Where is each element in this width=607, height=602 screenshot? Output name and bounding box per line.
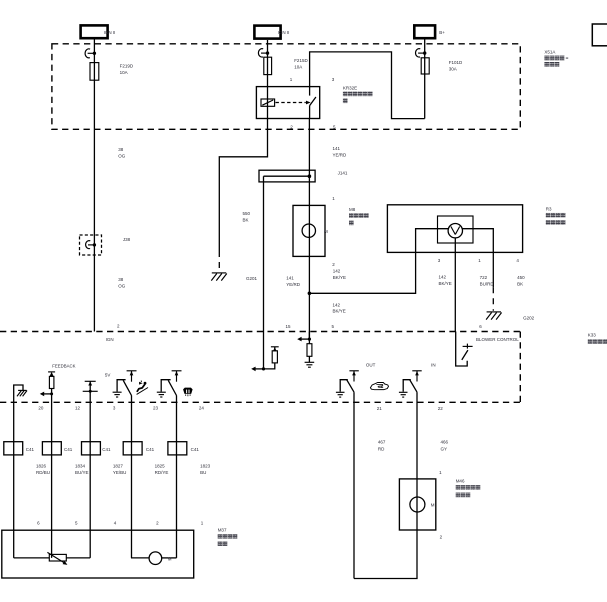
- svg-text:1: 1: [439, 470, 442, 475]
- wire 142 BK/YE M8 to junction: [308, 256, 310, 293]
- svg-text:GY: GY: [441, 446, 448, 451]
- blower motor M8: [293, 205, 328, 256]
- svg-text:1: 1: [332, 196, 335, 201]
- label 142 BK/YE: [333, 268, 346, 280]
- svg-text:KR32E: KR32E: [343, 85, 357, 90]
- K33 dashed border bottom: [0, 401, 520, 403]
- wire 722 BU/RD R3 pin 1 to K33 pin 6: [454, 252, 456, 331]
- svg-text:3: 3: [438, 258, 441, 263]
- label R3 鼓风机电机电阻器: [546, 206, 566, 224]
- M37 internal wire pin6 to potentiometer: [14, 557, 50, 559]
- svg-text:BK: BK: [243, 218, 249, 223]
- svg-text:30A: 30A: [449, 67, 457, 72]
- wire B+ feed through fuse F101D: [424, 40, 426, 119]
- mode switch 2 (K33): [157, 371, 182, 558]
- label 722 BU/RD: [480, 275, 495, 287]
- svg-text:BU/YE: BU/YE: [75, 470, 89, 475]
- label 466 GY: [441, 440, 449, 452]
- svg-text:2: 2: [156, 521, 159, 526]
- wire IGN II (left) feed through fuse F219D: [93, 40, 95, 130]
- svg-text:BU/RD: BU/RD: [480, 282, 495, 287]
- svg-text:C41: C41: [26, 447, 35, 452]
- label 1826 RD/BU: [36, 463, 50, 475]
- svg-text:1834: 1834: [75, 463, 86, 468]
- svg-text:38: 38: [118, 147, 124, 152]
- svg-text:6: 6: [37, 521, 40, 526]
- wire 550 BK relay pin 2 to ground: [219, 119, 267, 252]
- R3 internal wiring left: [416, 229, 449, 253]
- M37 internal wire potentiometer to pin4: [66, 557, 90, 559]
- recirculation IN switch (K33): [399, 371, 422, 397]
- label M46 内外循环模式电机: [456, 479, 481, 498]
- svg-text:BK: BK: [517, 282, 523, 287]
- svg-text:5: 5: [332, 324, 335, 329]
- fuse box corner box (top right): [592, 24, 607, 46]
- svg-text:21: 21: [377, 406, 383, 411]
- R3 inner element box: [438, 216, 474, 243]
- splice J141: [259, 170, 315, 182]
- svg-text:M46: M46: [456, 479, 465, 484]
- ignition switch contact at F219D: [85, 49, 96, 58]
- svg-text:23: 23: [153, 406, 159, 411]
- ground G201: [211, 273, 227, 281]
- motor (M37): [149, 552, 172, 565]
- label 142 BK/YE (lower): [333, 302, 346, 313]
- R3 internal wiring bottom: [454, 238, 456, 253]
- svg-text:F215D: F215D: [294, 58, 308, 63]
- M37 internal wire pin2 to motor: [131, 557, 149, 559]
- label 38 OG (lower): [118, 277, 126, 289]
- label KR32E 鼓风机电机继电器: [343, 85, 373, 103]
- svg-text:IN: IN: [431, 363, 436, 368]
- svg-text:C41: C41: [191, 447, 200, 452]
- ignition switch contact at F215D: [258, 49, 269, 57]
- svg-text:IGN: IGN: [106, 337, 114, 342]
- fuse F219D: [90, 63, 99, 81]
- svg-text:C41: C41: [102, 447, 111, 452]
- svg-text:J38: J38: [123, 237, 131, 242]
- svg-text:F219D: F219D: [120, 64, 134, 69]
- svg-text:R3: R3: [546, 206, 552, 211]
- svg-text:141: 141: [286, 276, 294, 281]
- label 550 BK: [243, 211, 251, 223]
- wire 466 GY K33 pin 22 to M46 pin 1: [416, 392, 418, 479]
- svg-text:15: 15: [286, 324, 292, 329]
- connector box IGN II (middle): [254, 26, 289, 39]
- svg-text:10A: 10A: [294, 65, 302, 70]
- blower resistor R3 box: [387, 205, 522, 253]
- svg-text:BK/YE: BK/YE: [333, 309, 346, 314]
- svg-text:G202: G202: [523, 315, 535, 320]
- svg-text:BK/YE: BK/YE: [333, 275, 346, 280]
- svg-text:6: 6: [479, 324, 482, 329]
- HVAC control module K33 dashed border top: [0, 331, 520, 333]
- 5V reference output (K33): [83, 381, 98, 558]
- svg-text:RD/BU: RD/BU: [36, 470, 50, 475]
- ground G202: [486, 312, 502, 320]
- svg-text:OG: OG: [118, 153, 126, 158]
- fuse F101D: [421, 58, 429, 74]
- relay switch pin 3 stub: [309, 87, 311, 96]
- svg-text:2: 2: [117, 324, 120, 329]
- svg-text:M37: M37: [218, 528, 227, 533]
- svg-text:142: 142: [333, 302, 341, 307]
- svg-text:IGN II: IGN II: [278, 30, 290, 35]
- label F101D 30A: [449, 60, 463, 72]
- svg-text:YE/RD: YE/RD: [333, 153, 348, 158]
- wire B+ to relay pin 3: [310, 52, 425, 119]
- svg-text:OG: OG: [118, 284, 126, 289]
- svg-text:2: 2: [440, 534, 443, 539]
- wire 38 OG fuse F219D to K33 IGN: [93, 129, 95, 331]
- svg-text:2: 2: [332, 262, 335, 267]
- fuse block X51A dashed border: [52, 44, 520, 130]
- icon defrost vent: [183, 388, 193, 397]
- fuse F215D: [264, 57, 272, 74]
- svg-text:M: M: [431, 503, 435, 508]
- wire junction to R3 pin 3: [309, 252, 415, 293]
- label 467 RD: [378, 440, 386, 452]
- label M8 鼓风机电机: [349, 207, 369, 225]
- svg-text:X51A: X51A: [544, 50, 555, 55]
- svg-text:BU: BU: [200, 470, 206, 475]
- blower control switch (K33): [456, 332, 473, 367]
- svg-text:J141: J141: [338, 171, 348, 176]
- svg-text:OUT: OUT: [366, 363, 376, 368]
- label 141 YE/RD: [333, 146, 348, 158]
- K33 dashed border right: [519, 332, 521, 403]
- label 1825 RD/YE: [155, 463, 169, 475]
- relay KR32E box: [256, 87, 319, 119]
- svg-text:20: 20: [38, 406, 44, 411]
- svg-text:1826: 1826: [36, 463, 47, 468]
- connector box B+: [414, 25, 445, 38]
- label F219D 10A: [120, 64, 134, 76]
- svg-text:M: M: [324, 229, 328, 234]
- recirculation OUT switch (K33): [336, 371, 359, 397]
- svg-text:BK/YE: BK/YE: [439, 281, 452, 286]
- K33 pin 15 input network: [251, 332, 279, 372]
- svg-text:B+: B+: [439, 30, 445, 35]
- svg-text:4: 4: [114, 521, 117, 526]
- R3 thermal limiter: [448, 224, 462, 238]
- label M37 模式执行电机: [218, 528, 238, 546]
- svg-text:142: 142: [333, 268, 341, 273]
- wire IGN II (middle) feed through fuse F215D: [267, 40, 269, 87]
- M37 internal wire motor to pin1: [162, 557, 177, 559]
- label 450 BK: [517, 275, 525, 287]
- svg-text:M: M: [168, 557, 172, 562]
- label K33 空调控制模块: [588, 333, 607, 344]
- label 1834 BU/YE: [75, 463, 89, 475]
- label X51A 保险丝盒 - 仪表板: [544, 50, 568, 67]
- svg-text:722: 722: [480, 275, 488, 280]
- svg-text:YE/RD: YE/RD: [286, 282, 301, 287]
- recirculation actuator M46: [399, 479, 435, 530]
- svg-text:1: 1: [478, 258, 481, 263]
- svg-text:RD/YE: RD/YE: [155, 470, 169, 475]
- label 1823 BU: [200, 463, 211, 475]
- label 1827 YE/BU: [113, 463, 127, 475]
- svg-text:22: 22: [438, 406, 444, 411]
- wire K33 pin 20 with chassis ground: [14, 385, 27, 558]
- svg-text:1827: 1827: [113, 463, 124, 468]
- potentiometer (M37): [47, 552, 67, 565]
- label 38 OG (upper): [118, 147, 126, 158]
- svg-text:38: 38: [118, 277, 124, 282]
- wire 450 BK dashed segment: [492, 287, 494, 311]
- connector C41 terminal 2: [42, 442, 61, 455]
- FEEDBACK pull-up network (K33): [40, 372, 55, 558]
- relay KR32E coil: [261, 87, 275, 119]
- svg-text:550: 550: [243, 211, 251, 216]
- wire 141 YE/RD branch J141 to K33 pin 15: [263, 176, 265, 331]
- svg-text:10A: 10A: [120, 70, 128, 75]
- wire 450 BK R3 pin 4 to G202: [492, 252, 494, 287]
- wire 550 BK dashed segment: [218, 251, 220, 271]
- relay switch pin 5 stub: [309, 106, 311, 119]
- svg-text:3: 3: [332, 77, 335, 82]
- relay switch blade: [310, 97, 316, 106]
- wire 142 BK/YE junction to K33 pin 5: [308, 293, 310, 339]
- svg-text:1825: 1825: [155, 463, 166, 468]
- label F215D 10A: [294, 58, 308, 69]
- connector C41 terminal 1: [4, 442, 23, 455]
- connector box IGN II (left): [81, 25, 116, 38]
- wire 467 RD K33 pin 21 to M46: [353, 392, 355, 578]
- wire M46 pin 2 return loop: [354, 530, 417, 579]
- connector C41 terminal 5: [168, 442, 187, 455]
- svg-text:1823: 1823: [200, 463, 211, 468]
- svg-text:IGN II: IGN II: [104, 30, 116, 35]
- svg-text:M8: M8: [349, 207, 356, 212]
- svg-text:RD: RD: [378, 446, 385, 451]
- svg-text:BLOWER CONTROL: BLOWER CONTROL: [476, 337, 519, 342]
- label 141 YE/RD (branch): [286, 276, 301, 288]
- svg-text:5: 5: [75, 521, 78, 526]
- svg-text:C41: C41: [64, 447, 73, 452]
- svg-text:4: 4: [516, 258, 519, 263]
- mode switch 1 (K33): [113, 371, 137, 558]
- svg-text:5V: 5V: [105, 372, 111, 377]
- icon air distribution (person): [137, 381, 148, 395]
- svg-text:1: 1: [201, 521, 204, 526]
- K33 pin 5 input network: [297, 332, 314, 368]
- svg-text:K33: K33: [588, 333, 597, 338]
- svg-text:142: 142: [439, 274, 447, 279]
- junction node: [308, 292, 312, 296]
- icon car: [370, 383, 388, 390]
- svg-text:12: 12: [75, 406, 81, 411]
- splice J38: [80, 235, 102, 255]
- connector C41 terminal 3: [82, 442, 101, 455]
- svg-text:24: 24: [199, 406, 205, 411]
- ignition switch contact at F101D: [416, 49, 427, 57]
- label 142 BK/YE (R3 pin 3): [439, 274, 452, 286]
- svg-text:FEEDBACK: FEEDBACK: [52, 364, 75, 369]
- svg-text:3: 3: [113, 406, 116, 411]
- svg-text:F101D: F101D: [449, 60, 463, 65]
- svg-text:467: 467: [378, 440, 386, 445]
- mode actuator M37 box: [2, 530, 194, 578]
- svg-text:450: 450: [517, 275, 525, 280]
- svg-text:1: 1: [290, 77, 293, 82]
- svg-text:141: 141: [333, 146, 341, 151]
- svg-text:G201: G201: [246, 276, 258, 281]
- relay coil actuation link (dashed): [276, 101, 311, 105]
- svg-text:C41: C41: [146, 447, 155, 452]
- wire 141 YE/RD relay pin 5 to blower motor: [308, 119, 310, 206]
- svg-text:466: 466: [441, 440, 449, 445]
- connector C41 terminal 4: [123, 442, 142, 455]
- R3 internal wiring right: [462, 229, 493, 253]
- svg-text:YE/BU: YE/BU: [113, 470, 127, 475]
